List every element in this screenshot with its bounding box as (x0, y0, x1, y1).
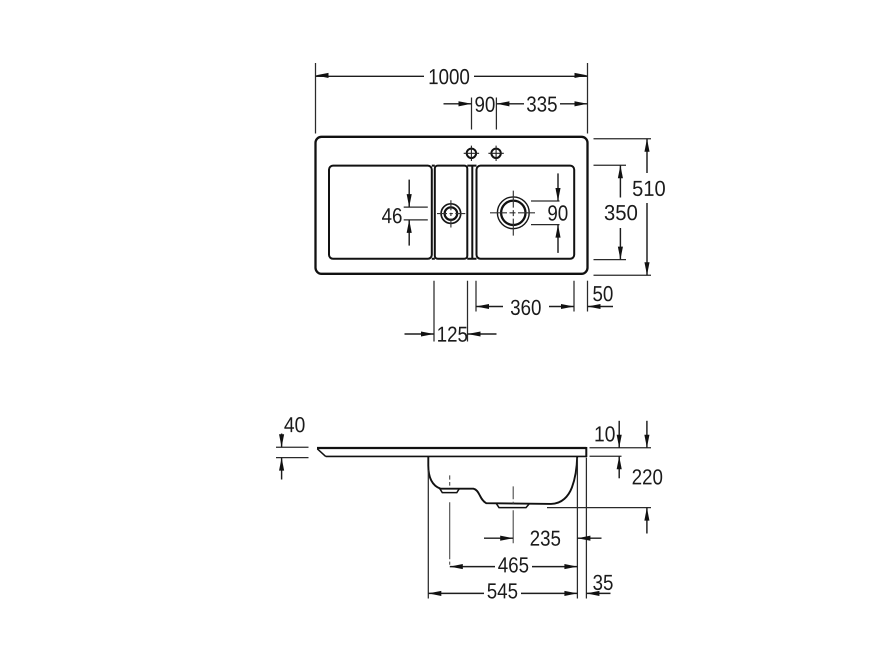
dim 350 line (619, 165, 621, 259)
dim 465 text (498, 557, 528, 572)
dim 220 upper arrow (646, 421, 648, 448)
dim 360 line (476, 306, 574, 308)
faucet hole 2 (488, 146, 503, 161)
small drain recess (440, 489, 460, 493)
main bowl rect (477, 166, 575, 259)
ref line rim bottom left (276, 457, 309, 459)
dim 46 text (382, 208, 402, 223)
sink outer rim outline (316, 137, 588, 274)
dim 90 left outside arrow (444, 103, 472, 105)
dim 90 text (475, 97, 494, 112)
ref line rim top left (276, 446, 309, 448)
dim 1000 extension lines (316, 63, 588, 134)
dim 40 upper arrow (281, 434, 283, 448)
bowl section outline (428, 456, 577, 504)
dim 125 left outside arrow (405, 333, 435, 335)
dim 510 line (646, 139, 648, 276)
dim 46 lower arrow (408, 220, 410, 246)
rim right edge (585, 447, 587, 457)
dim 1000 line (316, 75, 588, 77)
dim 1000 arrowheads (316, 73, 329, 78)
bridge segments between rects (432, 166, 477, 259)
dim 235 left outside arrow (484, 537, 513, 539)
dim 545 line (428, 592, 577, 594)
dim 1000 text (430, 69, 470, 84)
faucet hole 1 (464, 146, 479, 161)
dim 220 text (633, 469, 663, 484)
main drain centerline (512, 486, 514, 543)
dim 545 text (488, 583, 518, 598)
small drain crosshair (437, 200, 465, 227)
small drain centerline (449, 475, 451, 564)
ext line bowl right edge (576, 458, 578, 599)
dim 90 (faucet) extension lines (472, 98, 497, 130)
dim 35 text (593, 575, 612, 590)
dim 510 extension lines (594, 139, 652, 276)
dim 125 text (438, 327, 467, 342)
dim 46 extension lines (404, 207, 428, 220)
dim 335 line (496, 103, 587, 105)
rim under line (326, 455, 587, 457)
small drain outer circle (441, 204, 461, 224)
ext line rim right edge (585, 458, 587, 599)
dim 465 line (450, 566, 578, 568)
dim 35 outside arrow (586, 592, 610, 594)
main drain crosshair (490, 191, 536, 236)
ext line bowl left edge (427, 470, 429, 599)
dim 235 text (531, 531, 561, 546)
dim 50 outside arrow (588, 306, 614, 308)
divider line between bowls (471, 166, 473, 259)
dim 125 extension lines (434, 281, 468, 342)
small drain inner circle (445, 207, 458, 220)
dim 46 upper arrow (408, 180, 410, 208)
main drain recess (496, 504, 529, 508)
dim 90 drain lower arrow (557, 225, 559, 253)
dim 510 text (633, 181, 665, 196)
dim 335 text (527, 96, 557, 111)
dim 10 upper arrow (618, 421, 620, 448)
rim top surface line (317, 447, 586, 449)
dim 360 extension lines (476, 281, 574, 312)
dim 40 lower arrow (281, 458, 283, 480)
dim 90 drain text (548, 205, 567, 220)
main drain outer circle (497, 197, 529, 229)
rim left bevel (317, 449, 326, 457)
drainboard inner rect (329, 166, 432, 259)
dim 50 text (593, 286, 612, 301)
small bowl rect (435, 166, 468, 259)
dim 90 (drain) extension lines (531, 201, 560, 225)
dim 350 extension lines (594, 165, 627, 259)
dim 125 right outside arrow (468, 333, 497, 335)
ref line bowl bottom right (547, 507, 651, 509)
dim 235 right outside arrow (577, 537, 601, 539)
dim 40 text (284, 417, 304, 432)
dim 220 lower arrow (646, 508, 648, 534)
ref line rim top right (590, 447, 652, 449)
dim 335 arrowheads (496, 101, 509, 106)
ref line rim bottom right (590, 455, 622, 457)
main drain inner circle (501, 201, 525, 225)
dim 360 text (511, 300, 541, 315)
dim 90 drain upper arrow (557, 173, 559, 201)
dim 50 extension line (587, 281, 589, 312)
dim 10 text (595, 426, 614, 441)
dim 350 text (605, 205, 637, 220)
dim 10 lower arrow (618, 456, 620, 478)
